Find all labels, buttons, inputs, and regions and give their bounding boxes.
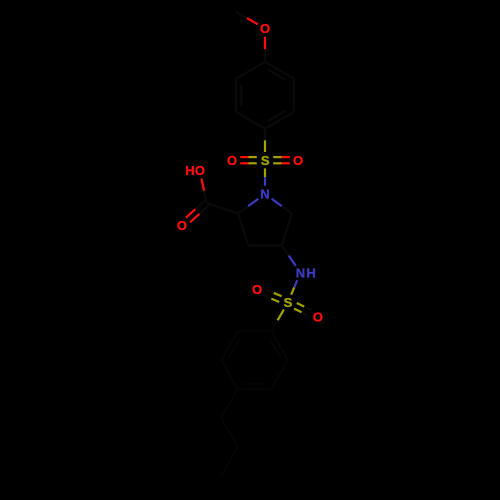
benzene ring 2 bond C6-C1 — [238, 330, 271, 332]
svg-text:N: N — [260, 187, 269, 202]
double bond S1=O right — [273, 157, 290, 163]
benzene ring 2 bond C3-C4 — [238, 388, 271, 390]
svg-text:O: O — [227, 153, 237, 168]
benzene ring 2 bond C4-C5 — [221, 360, 238, 389]
svg-text:H: H — [185, 163, 194, 178]
bond aryl C4-S sulfonyl 1 — [264, 129, 266, 152]
bond C4-C5 pyrrolidine — [282, 214, 292, 246]
benzene ring 1 inner double bond C3=C4 — [268, 111, 286, 121]
svg-text:O: O — [195, 163, 205, 178]
bond S2-C aryl 2 — [271, 309, 284, 331]
svg-text:H: H — [306, 265, 315, 280]
double bond C=O acid — [186, 201, 209, 223]
benzene ring 2 bond C5-C6 — [221, 331, 238, 360]
bond C4-NH — [282, 245, 296, 265]
svg-text:S: S — [284, 295, 293, 310]
benzene ring 1 bond C2-C3 — [293, 79, 295, 112]
svg-text:O: O — [260, 21, 270, 36]
bond C3-C4 pyrrolidine — [248, 244, 281, 246]
benzene ring 1 bond C5-C6 — [235, 79, 237, 112]
benzene ring 1 bond C1-C2 — [265, 62, 294, 79]
svg-text:O: O — [252, 282, 262, 297]
svg-text:O: O — [313, 309, 323, 324]
benzene ring 2 inner double bond C3=C4 — [244, 383, 265, 385]
double bond S1=O left — [240, 157, 257, 163]
benzene ring 2 bond C2-C3 — [271, 360, 288, 389]
bond tail C1-C2 — [221, 418, 238, 447]
svg-text:O: O — [177, 218, 187, 233]
benzene ring 2 bond C1-C2 — [271, 331, 288, 360]
bond S1-N pyrrolidine — [264, 168, 266, 185]
bond O-C aryl — [264, 37, 266, 62]
bond aryl2 C4-tail C1 — [221, 389, 238, 418]
benzene ring 2 inner double bond C1=C2 — [270, 339, 280, 357]
bond NH-S2 — [291, 280, 297, 295]
benzene ring 2 inner double bond C5=C6 — [229, 339, 239, 357]
benzene ring 1 bond C6-C1 — [236, 62, 265, 79]
svg-text:S: S — [261, 153, 270, 168]
double bond S2=O upper left — [263, 290, 281, 302]
benzene ring 1 bond C4-C5 — [236, 112, 265, 129]
benzene ring 1 inner double bond C1=C2 — [268, 70, 286, 80]
bond N-C2 pyrrolidine — [238, 199, 258, 214]
bond N-C5 pyrrolidine — [272, 199, 292, 214]
benzene ring 1 bond C3-C4 — [265, 112, 294, 129]
bond C2-C3 pyrrolidine — [238, 214, 248, 246]
bond tail C2-C3 — [221, 447, 238, 476]
benzene ring 1 inner double bond C5=C6 — [240, 85, 242, 106]
bond C2-carboxyl C — [207, 203, 238, 214]
svg-text:N: N — [296, 265, 305, 280]
double bond S2=O lower right — [294, 303, 312, 316]
svg-text:O: O — [293, 153, 303, 168]
bond carboxyl C-OH — [201, 178, 206, 203]
bond CH3-O (methoxy) — [236, 12, 258, 25]
